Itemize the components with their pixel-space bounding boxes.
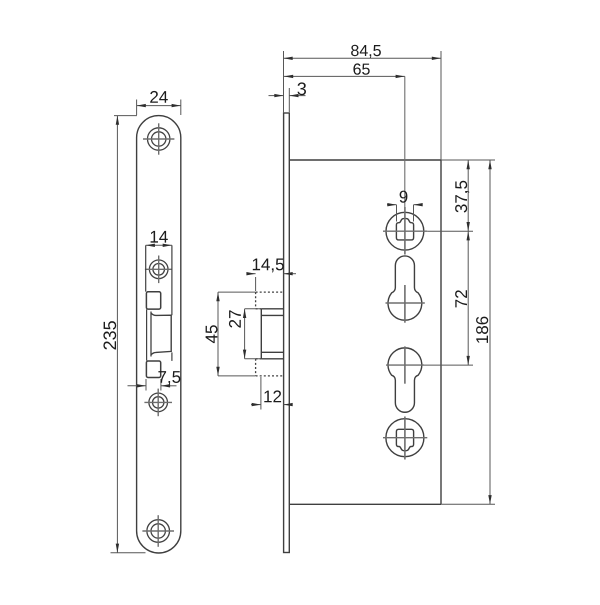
spindle2 crosshair — [383, 437, 427, 439]
label 9 — [400, 191, 408, 203]
label 37,5 — [455, 181, 469, 213]
spindle square 2 (crown bottom) — [396, 429, 413, 450]
label 24 — [150, 91, 168, 103]
arrows 235 — [116, 116, 119, 125]
keyhole 2 (stem down) — [388, 348, 422, 412]
screw hole D (bottom) — [147, 520, 170, 543]
dim 65 — [284, 75, 405, 77]
case edge extension lines — [441, 160, 495, 504]
spindle1 crosshair — [383, 230, 427, 232]
arrows 72 — [467, 231, 470, 240]
label 14 — [151, 231, 168, 243]
screw hole C — [149, 393, 168, 412]
dim 12 — [251, 377, 292, 410]
label 235 — [103, 321, 116, 349]
spindle hole 1 — [386, 212, 424, 250]
dim 24 extensions — [136, 100, 138, 116]
dim 24 line — [137, 105, 181, 107]
label 7,5 — [158, 371, 180, 385]
spindle hole 2 — [386, 419, 424, 457]
dim 14 line — [146, 244, 172, 246]
upper square hole — [146, 292, 160, 309]
keyhole2 crosshair — [386, 364, 424, 366]
spindle square 1 (crown top) — [396, 218, 413, 239]
screw hole A (top) — [148, 128, 170, 150]
label 72 — [455, 290, 467, 307]
keyhole1 crosshair — [386, 302, 425, 304]
arrows 3 — [274, 94, 283, 97]
latch bolt head — [151, 313, 171, 355]
dim 3 — [288, 88, 290, 112]
dim 186 — [489, 160, 491, 504]
keyhole 1 (stem up) — [388, 256, 422, 320]
label 84,5 — [351, 45, 381, 58]
inner cutout line right — [171, 245, 173, 315]
arrows 7,5 — [137, 384, 146, 387]
dim 9 — [396, 205, 398, 222]
label 65 — [353, 63, 369, 74]
dim 7,5 extensions — [145, 379, 147, 391]
dim 14,5 — [247, 274, 297, 291]
label 186 — [476, 317, 488, 343]
dim 45 — [218, 292, 255, 376]
lower square hole — [146, 361, 160, 378]
solid latch block — [261, 309, 283, 359]
label 3 — [298, 82, 307, 95]
dim 235 line — [116, 116, 118, 553]
hidden (dashed) lower block — [256, 359, 284, 376]
arrows 24 — [137, 104, 146, 107]
hidden (dashed) upper block — [256, 292, 284, 309]
arrows 186 — [488, 160, 491, 169]
latch bolt left edge — [150, 312, 152, 357]
vertical centerline — [404, 76, 406, 207]
dim 37,5 and 72 — [427, 230, 473, 232]
arrows 14 — [146, 244, 155, 247]
arrows 65 — [284, 75, 293, 78]
case outline — [289, 160, 441, 504]
arrows 9 — [387, 203, 396, 206]
dim 235 extensions — [114, 115, 137, 117]
arrows 37,5 — [467, 160, 470, 169]
faceplate outline — [137, 116, 181, 553]
faceplate edge-on plate — [284, 113, 290, 553]
inner cutout line left — [145, 245, 147, 291]
arrows 84,5 — [284, 57, 293, 60]
screw hole B (small) — [149, 260, 168, 279]
dim 27 — [245, 309, 261, 359]
dim 84,5 — [283, 51, 285, 113]
dim 7,5 line — [128, 385, 147, 387]
latch channel line — [146, 309, 148, 360]
